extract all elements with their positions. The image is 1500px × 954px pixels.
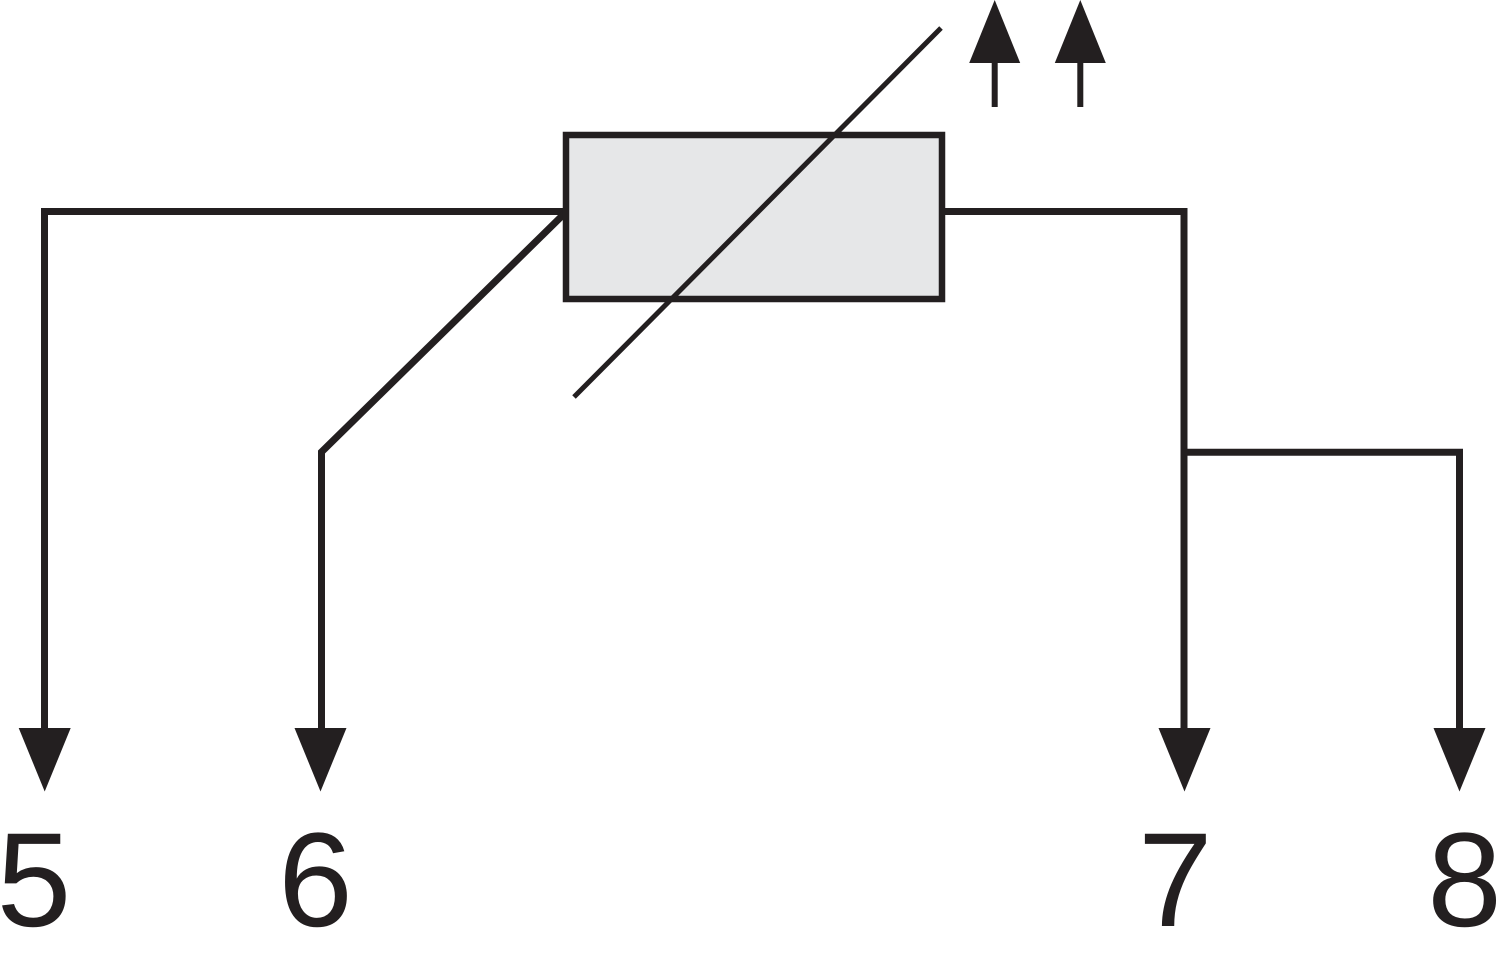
svg-text:8: 8: [1427, 806, 1500, 954]
variable-resistor diagonal stroke: [574, 28, 941, 397]
light ray arrow 2: [1055, 0, 1106, 107]
arrowhead pin 6: [295, 728, 347, 792]
svg-text:6: 6: [278, 806, 353, 954]
wire: wiper lead to pin 6 (diagonal + vertical): [322, 212, 567, 730]
svg-text:5: 5: [0, 806, 71, 954]
arrowhead pin 7: [1159, 728, 1211, 792]
light ray arrow 1: [969, 0, 1020, 107]
wire: pin 5 lead (left vertical + top horizontal to resistor body): [45, 212, 565, 731]
wire: branch to pin 8 (horizontal + far-right vertical): [1184, 452, 1460, 730]
arrowhead pin 8: [1434, 728, 1486, 792]
resistor body R (photoresistor rectangle): [566, 135, 942, 299]
arrowhead pin 5: [19, 728, 71, 792]
svg-text:7: 7: [1138, 806, 1213, 954]
wire: pin 7 lead (horizontal from resistor + right vertical): [944, 212, 1184, 731]
